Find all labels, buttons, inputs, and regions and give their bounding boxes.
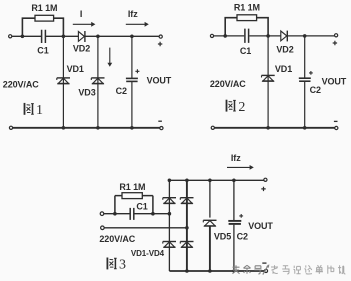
node junction VD1 bottom [266,126,270,130]
wire: VD5 branch upper [209,180,211,217]
capacitor C2 [126,77,138,79]
svg-text:C1: C1 [136,202,147,212]
node: AC input bottom terminal [9,126,12,129]
node junction bottom right column [185,269,189,273]
node junction top left column [168,179,172,183]
node junction bottom C2 [232,269,235,272]
svg-text:C2: C2 [310,85,321,95]
node: output - terminal [160,127,163,130]
label fig3 (Chinese tu) [107,258,116,270]
svg-text:VOUT: VOUT [248,221,273,231]
node: AC input top terminal [100,212,104,216]
label + of C2 [239,214,243,218]
node junction top C2 [232,179,236,183]
svg-text:VD3: VD3 [78,88,95,98]
node junction top VD5 [208,179,212,183]
node junction top right column [185,179,189,183]
node junction C2 top [130,35,134,39]
svg-text:3: 3 [119,258,126,273]
wire: bridge right column [186,180,188,271]
watermark char tou [233,265,240,274]
wire: R1 feedback loop [22,18,63,36]
node: output - terminal [335,126,338,129]
diode VD3 [163,242,176,248]
resistor R1 [237,15,257,21]
capacitor C2 [228,220,241,222]
label + of C2 [135,69,139,73]
wire: VD1 branch [62,36,64,127]
diode VD5 (zener) [203,220,216,226]
svg-text:220V/AC: 220V/AC [3,80,39,90]
svg-text:1: 1 [36,103,43,118]
resistor R1 [122,193,142,199]
svg-text:VD1: VD1 [67,64,84,74]
svg-text:C2: C2 [237,231,248,241]
watermark char pian [328,265,334,274]
node: output + terminal [159,35,162,38]
wire: VD5 branch lower [209,226,211,271]
svg-text:R1 1M: R1 1M [119,182,145,192]
node junction loop right [151,212,155,216]
wire: bridge left column [168,180,170,271]
watermark char dan [316,265,323,274]
label - output [334,120,338,122]
wire: R1 feedback loop [225,18,268,36]
svg-text:C1: C1 [37,46,48,56]
arrow: current Ifz [227,166,250,168]
node junction at R1/C1 right [62,35,66,39]
svg-text:VD1-VD4: VD1-VD4 [131,249,165,258]
capacitor C1 [130,208,134,220]
svg-text:VD2: VD2 [276,45,293,55]
label + output [333,41,337,45]
arrow: current down [109,48,111,63]
diode VD1 [163,198,176,204]
diode VD2 [78,32,84,42]
svg-text:I: I [80,9,82,19]
node junction bottom VD5 [208,269,212,273]
node junction at R1/C1 left [223,34,227,38]
capacitor C1 [245,29,249,43]
watermark slash [263,265,269,275]
diode VD2 [281,31,287,41]
label + output [158,42,162,46]
node junction C2 bottom [303,126,307,130]
svg-text:Ifz: Ifz [128,9,138,19]
node: output + terminal [335,34,338,37]
diode VD1 [57,78,70,84]
diode VD4 [180,242,193,248]
wire: VD1 branch [267,36,269,128]
node: AC input bottom terminal [101,226,105,230]
wire: top rail [169,179,264,181]
wire: C2 branch [131,36,133,127]
watermark char ma [282,266,289,274]
wire: bottom AC line [104,227,187,229]
svg-text:VD5: VD5 [214,232,231,242]
arrow: current Ifz [126,23,145,25]
node junction AC to right column [185,226,189,230]
node junction VD3 bottom [96,126,100,130]
wire: top rail segments [12,35,159,37]
node: AC input top terminal [9,35,12,38]
label + of C2 [309,71,313,75]
svg-text:Ifz: Ifz [231,153,241,163]
svg-text:220V/AC: 220V/AC [99,234,135,244]
node: AC input bottom terminal [211,126,214,129]
label fig2 (Chinese tu) [227,100,236,112]
wire: C2 branch [304,36,306,128]
svg-text:2: 2 [238,100,245,115]
node junction loop left [113,212,117,216]
wire: bottom rail [13,127,160,129]
watermark char tu [304,265,312,274]
wire: VD3 branch [97,36,99,127]
resistor R1 [35,15,54,21]
watermark char lao [271,265,278,274]
svg-text:220V/AC: 220V/AC [210,79,246,89]
svg-text:C1: C1 [240,46,251,56]
wire: bottom rail [214,127,336,129]
capacitor C2 [299,77,311,79]
watermark char hao [254,266,261,274]
wire: C2 branch [233,180,235,271]
wire: top AC line [104,213,169,215]
svg-text:VD1: VD1 [275,64,292,74]
watermark char shi [293,266,300,274]
svg-text:R1 1M: R1 1M [234,2,260,12]
svg-text:VOUT: VOUT [322,76,347,86]
arrow: current I [73,23,92,25]
node: output + terminal [264,178,267,181]
diode VD1 (zener) [262,75,275,81]
diode VD2 [180,198,193,204]
wire: bottom rail [169,270,266,272]
wire: R1 loop [115,196,153,214]
svg-text:R1 1M: R1 1M [31,3,57,13]
capacitor C1 [42,30,46,43]
node junction C2 top [303,34,307,38]
label + output [261,187,265,191]
label fig1 (Chinese tu) [25,103,34,115]
node junction AC to left column [168,212,172,216]
node: AC input top terminal [210,34,213,37]
svg-text:C2: C2 [116,86,127,96]
label - output [262,262,266,264]
node junction at R1/C1 left [21,35,25,39]
node junction VD3 top [96,35,100,39]
wire: top rail segments [214,35,335,37]
svg-text:VOUT: VOUT [147,76,172,86]
node junction C2 bottom [130,126,134,130]
watermark char ji [338,265,345,274]
node junction VD1 bottom [62,126,66,130]
node junction VD1 top [266,34,270,38]
svg-text:VD2: VD2 [73,43,90,53]
watermark char tiao [244,265,251,274]
diode VD3 [91,78,104,84]
node: output - terminal [264,269,267,272]
label - output [158,120,162,122]
